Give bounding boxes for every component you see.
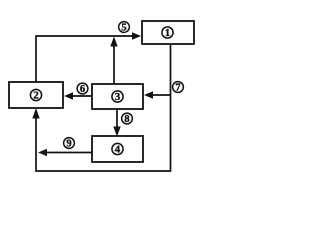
arrow left into vertical line xyxy=(38,149,47,156)
svg-text:7: 7 xyxy=(175,83,180,94)
arrow into box 2 right xyxy=(64,92,73,99)
label 5 xyxy=(119,22,130,34)
svg-text:8: 8 xyxy=(124,114,129,125)
svg-text:2: 2 xyxy=(33,90,39,102)
wire from box 3 left into box 2 xyxy=(70,95,92,97)
label 8 xyxy=(122,113,133,125)
label 6 xyxy=(77,83,88,95)
wire from box 4 left to left vertical xyxy=(44,152,92,154)
arrow up into box 2 bottom xyxy=(32,108,39,119)
label 9 xyxy=(64,138,75,150)
box 1 xyxy=(142,21,194,44)
arrow into box 3 right xyxy=(144,91,153,98)
svg-text:5: 5 xyxy=(121,23,126,34)
svg-text:6: 6 xyxy=(80,84,85,95)
arrow up into top line xyxy=(110,37,117,47)
arrow into box 1 left xyxy=(132,32,141,39)
arrow down into box 4 top xyxy=(113,127,120,137)
wire from box 3 top up to top line xyxy=(113,44,115,84)
box 2 xyxy=(9,82,63,108)
label 7 xyxy=(173,82,184,94)
wire from box 3 bottom down to box 4 xyxy=(116,109,118,130)
box 3 xyxy=(92,84,143,109)
box 4 xyxy=(92,136,143,162)
wire from right line into box 3 xyxy=(150,94,171,96)
svg-text:1: 1 xyxy=(165,27,171,39)
svg-text:4: 4 xyxy=(115,144,121,156)
wire from box 1 bottom down right side xyxy=(36,44,171,171)
svg-text:9: 9 xyxy=(66,139,71,150)
wire from box 2 top up and right to box 1 xyxy=(36,36,135,82)
svg-text:3: 3 xyxy=(115,91,121,103)
